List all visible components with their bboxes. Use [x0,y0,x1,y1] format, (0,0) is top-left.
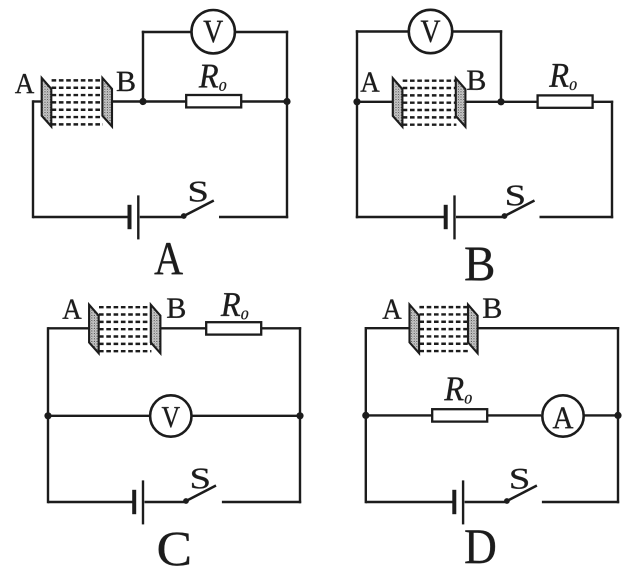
node left junction (circuit B) [353,98,360,105]
capacitor plate A (left, circuit D) [410,305,420,354]
voltmeter V (circuit C) [150,395,191,436]
label A (left plate, circuit D) [383,300,402,319]
label B (right plate, circuit A) [117,72,135,91]
label R0 (circuit D) [444,377,472,403]
switch S (circuit C) [183,486,216,504]
wire battery to switch (circuit C) [145,501,187,503]
label S (circuit C) [192,468,209,488]
label circuit A [155,243,183,274]
wire plate B to R0 (circuit C) [160,327,206,329]
capacitor plate A (left, circuit A) [42,78,52,127]
capacitor field dashed lines [419,307,468,351]
label R0 (circuit A) [199,65,227,91]
node right junction (circuit A) [283,98,290,105]
capacitor field dashed lines [99,307,151,351]
wire corner to plate A (circuit D) [366,327,410,329]
switch S (circuit B) [502,201,535,219]
node left junction (circuit D) [362,412,369,419]
wire bottom left (circuit B) [356,216,445,218]
resistor R0 (circuit D) [432,409,487,421]
wire battery to switch (circuit D) [465,501,507,503]
battery (circuit C) [134,480,143,524]
wire bottom left (circuit D) [366,501,453,503]
battery (circuit A) [130,195,139,239]
node right junction (circuit B) [497,98,504,105]
label B (right plate, circuit D) [483,298,501,317]
wire battery to switch (circuit B) [456,216,505,218]
wire left vertical (circuit B) [356,102,358,218]
wire to voltmeter (circuit B) [356,30,410,32]
capacitor plate B (right, circuit A) [102,78,112,127]
wire left vertical (circuit A) [32,100,34,218]
wire plate B to right corner (circuit D) [478,327,619,329]
label circuit D [465,530,495,563]
wire right vertical (circuit A) [286,101,288,219]
wire plate A stub (circuit A) [33,100,42,102]
wire voltmeter to right (circuit A) [234,31,288,33]
wire R0 to ammeter (circuit D) [487,414,541,416]
resistor R0 (circuit A) [186,95,241,107]
wire R0 to right corner (circuit B) [593,101,614,103]
wire bottom left (circuit C) [48,501,133,503]
label A (left plate, circuit A) [15,74,34,93]
label S (circuit B) [507,185,524,205]
wire voltmeter branch right vertical (circuit B) [500,30,502,102]
wire ammeter to right node (circuit D) [583,414,618,416]
wire corner to plate A (circuit C) [48,327,89,329]
capacitor field dashed lines [403,81,457,125]
wire plate B to node (circuit B) [465,101,501,103]
wire node to R0 (circuit B) [501,101,538,103]
label B (right plate, circuit C) [167,298,185,317]
label circuit B [465,248,493,281]
label S (circuit A) [190,182,207,202]
capacitor plate B (right, circuit C) [151,305,161,354]
wire R0 to right node (circuit A) [241,100,287,102]
battery (circuit D) [454,480,463,524]
label B (right plate, circuit B) [467,71,485,90]
wire left node to voltmeter (circuit C) [48,415,149,417]
capacitor field dashed lines [52,80,103,124]
wire voltmeter to right (circuit B) [452,30,503,32]
wire voltmeter branch left vertical (circuit B) [356,30,358,102]
capacitor plate A (left, circuit C) [89,305,99,354]
ammeter A (circuit D) [542,395,583,436]
voltmeter V (circuit A) [192,10,235,53]
resistor R0 (circuit C) [206,322,261,334]
wire voltmeter branch right vertical (circuit A) [286,31,288,102]
label S (circuit D) [511,469,528,489]
wire plate B to R0 (circuit A) [112,100,186,102]
label R0 (circuit B) [549,64,577,90]
node right junction (circuit C) [296,412,303,419]
label circuit C [159,532,189,565]
capacitor plate B (right, circuit B) [456,78,466,127]
label A (left plate, circuit C) [63,300,82,319]
wire switch to right corner (circuit D) [542,501,619,503]
voltmeter V (circuit B) [409,10,452,53]
switch S (circuit D) [504,486,537,504]
wire left node to R0 (circuit D) [366,414,432,416]
wire voltmeter to right node (circuit C) [191,415,300,417]
wire battery to switch (circuit A) [140,216,184,218]
node left junction (circuit A) [139,98,146,105]
label R0 (circuit C) [221,293,249,319]
wire R0 to right corner (circuit C) [261,327,301,329]
switch S (circuit A) [181,201,214,219]
wire voltmeter branch left vertical (circuit A) [142,31,144,102]
capacitor plate B (right, circuit D) [468,305,478,354]
wire switch to right corner (circuit A) [219,216,288,218]
battery (circuit B) [446,195,455,239]
wire node to plate A (circuit B) [357,101,393,103]
wire right vertical (circuit B) [611,101,613,219]
capacitor plate A (left, circuit B) [393,78,403,127]
wire to voltmeter (circuit A) [142,31,193,33]
node left junction (circuit C) [44,412,51,419]
wire left vertical (circuit D) [365,327,367,503]
node right junction (circuit D) [614,412,621,419]
resistor R0 (circuit B) [538,95,593,107]
label A (left plate, circuit B) [361,72,380,91]
wire switch to right corner (circuit C) [222,501,301,503]
wire switch to right corner (circuit B) [540,216,614,218]
wire right vertical (circuit D) [617,327,619,503]
wire left vertical (circuit C) [47,327,49,503]
wire right vertical (circuit C) [299,327,301,503]
wire bottom left (circuit A) [33,216,128,218]
